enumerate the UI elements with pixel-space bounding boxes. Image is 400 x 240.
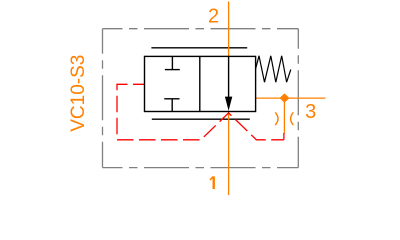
svg-text:2: 2 — [208, 5, 219, 27]
orifice right arc — [291, 112, 294, 125]
port 3 line — [256, 97, 326, 99]
port 1 line — [228, 111, 230, 195]
component boundary bottom edge — [103, 167, 299, 169]
node junction on port 3 — [280, 94, 288, 102]
flow arrow shaft — [228, 56, 230, 100]
svg-text:3: 3 — [305, 101, 316, 123]
cartridge body top line — [151, 47, 247, 49]
svg-text:VC10-S3: VC10-S3 — [68, 55, 89, 132]
orifice left arc — [275, 112, 278, 125]
port 2 line — [228, 2, 230, 57]
component boundary (dashed enclosure) top edge — [103, 28, 299, 30]
pilot line riser to orifice — [283, 133, 285, 140]
closed port symbol bottom T — [164, 98, 179, 100]
spring — [256, 56, 291, 82]
component boundary right edge — [297, 29, 299, 168]
port 1 label — [212, 176, 214, 189]
drain line junction to orifice — [283, 98, 285, 133]
valve envelope box — [145, 56, 256, 111]
cartridge body bottom line — [152, 118, 250, 120]
pilot line (dashed red path) — [117, 84, 284, 140]
valve position divider — [199, 56, 201, 111]
closed port symbol top T — [171, 56, 173, 69]
component boundary left edge — [102, 29, 104, 168]
flow arrow head — [225, 97, 232, 111]
